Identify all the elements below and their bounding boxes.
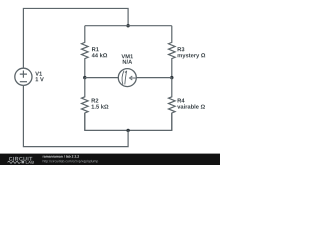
label VM1 name bbox=[121, 54, 133, 58]
label V1 value 1 V bbox=[36, 77, 44, 81]
wire: left midpoint to voltmeter bbox=[85, 77, 119, 79]
label R3 name bbox=[178, 47, 185, 51]
voltage source V1 body bbox=[15, 68, 32, 85]
resistor R3 bbox=[169, 26, 176, 78]
resistor R2 bbox=[82, 78, 89, 131]
label R1 value 44 kΩ bbox=[92, 53, 107, 57]
label R4 value vairable Ω bbox=[177, 104, 205, 108]
CircuitLab logo wordmark bbox=[8, 157, 34, 164]
wire: voltmeter to right midpoint bbox=[136, 77, 172, 79]
node: right bridge midpoint junction dot bbox=[170, 76, 173, 79]
label R3 value mystery Ω bbox=[178, 53, 206, 58]
node: left bridge midpoint junction dot bbox=[83, 76, 86, 79]
wire: V1 positive terminal up, across top rail, down to node A bbox=[23, 8, 128, 68]
label R1 name bbox=[92, 47, 99, 51]
node A junction dot (top) bbox=[126, 24, 129, 27]
footer caption line 2 bbox=[43, 160, 98, 163]
label VM1 value N/A bbox=[123, 60, 132, 64]
node B junction dot (bottom) bbox=[126, 129, 129, 132]
wire: bridge bottom rail bbox=[85, 113, 172, 130]
resistor R4 bbox=[169, 78, 176, 131]
wire: bridge top rail bbox=[85, 25, 172, 27]
label V1 name bbox=[35, 72, 42, 76]
wire: bottom return to V1 negative terminal bbox=[23, 85, 128, 146]
label R4 name bbox=[178, 99, 185, 103]
resistor R1 bbox=[82, 26, 89, 78]
voltmeter VM1 body bbox=[118, 69, 136, 87]
footer caption line 1 bbox=[43, 155, 79, 158]
footer watermark bar bbox=[0, 154, 220, 165]
label R2 name bbox=[92, 98, 99, 102]
label R2 value 1.5 kΩ bbox=[92, 104, 109, 108]
